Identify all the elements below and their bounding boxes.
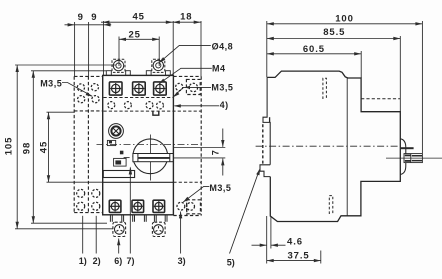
svg-text:9: 9 xyxy=(91,12,97,23)
svg-text:4): 4) xyxy=(220,100,229,110)
svg-text:45: 45 xyxy=(39,141,50,153)
svg-text:Ø4,8: Ø4,8 xyxy=(212,41,234,51)
svg-text:5): 5) xyxy=(227,258,235,268)
svg-text:7: 7 xyxy=(211,150,221,155)
svg-text:6): 6) xyxy=(114,256,122,266)
svg-text:M3,5: M3,5 xyxy=(211,83,233,93)
svg-text:18: 18 xyxy=(180,12,192,23)
svg-text:M3,5: M3,5 xyxy=(209,183,231,193)
svg-text:9: 9 xyxy=(78,12,84,23)
svg-text:100: 100 xyxy=(335,13,354,24)
svg-text:25: 25 xyxy=(129,29,141,40)
svg-text:85.5: 85.5 xyxy=(323,27,345,38)
svg-text:M4: M4 xyxy=(212,64,226,74)
svg-text:98: 98 xyxy=(21,142,32,154)
svg-text:7): 7) xyxy=(126,256,134,266)
svg-text:2): 2) xyxy=(93,256,101,266)
svg-text:1): 1) xyxy=(79,256,87,266)
svg-text:60.5: 60.5 xyxy=(303,44,325,55)
svg-text:105: 105 xyxy=(3,137,14,156)
svg-text:45: 45 xyxy=(133,12,145,23)
svg-text:M3,5: M3,5 xyxy=(40,78,62,88)
svg-text:3): 3) xyxy=(178,256,186,266)
svg-text:4.6: 4.6 xyxy=(287,236,303,247)
svg-text:37.5: 37.5 xyxy=(287,250,309,261)
